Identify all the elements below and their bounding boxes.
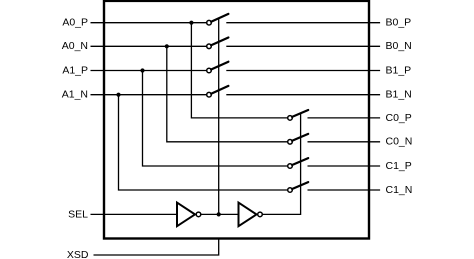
node A1_P tap junction bbox=[140, 68, 144, 72]
node A0_P tap junction bbox=[189, 21, 193, 25]
wire XSD input bbox=[94, 238, 219, 256]
svg-text:SEL: SEL bbox=[68, 208, 88, 220]
wire B0_N output bbox=[226, 45, 380, 47]
wire A1_P to C1_P switch bbox=[143, 71, 288, 167]
switch B0 (B0_P) bbox=[207, 14, 229, 25]
svg-text:XSD: XSD bbox=[67, 249, 89, 259]
inverter U1 bbox=[177, 203, 201, 227]
switch C0 (C0_P) bbox=[288, 110, 309, 120]
wire A1_P input bbox=[91, 70, 207, 72]
wire A0_N input bbox=[91, 45, 207, 47]
switch B3 (B1_N) bbox=[207, 86, 229, 97]
wire B1_P output bbox=[226, 70, 380, 72]
switch C2 (C1_P) bbox=[288, 158, 309, 168]
svg-text:C1_N: C1_N bbox=[386, 184, 413, 196]
svg-text:B0_P: B0_P bbox=[386, 17, 412, 29]
svg-text:B1_N: B1_N bbox=[386, 89, 412, 101]
wire A1_N to C1_N switch bbox=[119, 95, 288, 190]
svg-text:A1_N: A1_N bbox=[62, 89, 88, 101]
wire SEL buffered control to C switches bbox=[262, 113, 300, 214]
svg-text:B1_P: B1_P bbox=[386, 64, 412, 76]
switch B2 (B1_P) bbox=[207, 62, 229, 73]
svg-text:A0_N: A0_N bbox=[62, 40, 88, 52]
wire C0_P output bbox=[308, 117, 381, 119]
wire A0_P to C0_P switch bbox=[191, 23, 287, 118]
wire C1_N output bbox=[308, 189, 381, 191]
inverter U2 bbox=[239, 203, 263, 227]
wire B0_P output bbox=[226, 22, 380, 24]
node A1_N tap junction bbox=[116, 93, 120, 97]
wire SEL input bbox=[91, 213, 178, 215]
svg-text:A1_P: A1_P bbox=[62, 64, 88, 76]
wire U1 output bbox=[201, 213, 239, 215]
wire C0_N output bbox=[308, 141, 381, 143]
node A0_N tap junction bbox=[165, 44, 169, 48]
svg-text:B0_N: B0_N bbox=[386, 40, 412, 52]
svg-text:C1_P: C1_P bbox=[386, 160, 412, 172]
wire A1_N input bbox=[91, 94, 207, 96]
wire A0_P input bbox=[91, 22, 207, 24]
svg-text:C0_P: C0_P bbox=[386, 112, 412, 124]
node SEL control junction bbox=[217, 212, 221, 216]
svg-text:C0_N: C0_N bbox=[386, 136, 413, 148]
wire A0_N to C0_N switch bbox=[167, 46, 288, 142]
switch C1 (C0_N) bbox=[288, 134, 309, 144]
switch C3 (C1_N) bbox=[288, 182, 309, 192]
switch B1 (B0_N) bbox=[207, 38, 229, 49]
IC outline box bbox=[104, 1, 369, 239]
wire SEL-inverted control to B switches bbox=[218, 18, 220, 215]
wire C1_P output bbox=[308, 165, 381, 167]
svg-text:A0_P: A0_P bbox=[62, 17, 88, 29]
wire B1_N output bbox=[226, 94, 380, 96]
